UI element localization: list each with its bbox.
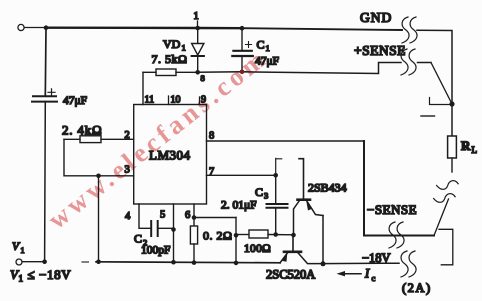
node VD1 bottom <box>195 70 200 75</box>
node emitter junction <box>321 261 326 266</box>
break symbol -SENSE <box>389 222 396 248</box>
wire pin2 loop to pin3 <box>64 139 134 176</box>
transistor Q2 2SC520A <box>280 235 323 264</box>
wire rail faint dash <box>82 261 89 263</box>
svg-text:2SC520A: 2SC520A <box>266 268 315 282</box>
svg-text:100Ω: 100Ω <box>244 243 271 255</box>
47uF plus mark <box>48 89 55 96</box>
wire pin 6 <box>193 204 195 226</box>
wire left rail lower <box>44 102 47 262</box>
transistor Q1 2SB434 <box>294 159 324 235</box>
wire +sense diagonal <box>431 63 452 105</box>
node rail left <box>42 259 47 264</box>
wire junction to RL <box>451 104 453 136</box>
pin 1 stub <box>197 21 199 28</box>
node x236 rail <box>234 261 239 266</box>
Q2 collector lead <box>298 253 323 264</box>
svg-text:L: L <box>472 145 478 155</box>
svg-text:C: C <box>255 185 263 199</box>
wire V1 to rail <box>22 261 44 263</box>
svg-text:1: 1 <box>194 11 199 22</box>
svg-text:(2A): (2A) <box>402 281 432 295</box>
svg-text:6: 6 <box>185 210 190 221</box>
resistor 0.2Ohm <box>190 226 197 244</box>
svg-text:1: 1 <box>182 43 186 53</box>
node GND-rail left junction <box>44 25 49 30</box>
svg-text:100pF: 100pF <box>141 245 170 257</box>
node Q1-Q2 base <box>291 233 296 238</box>
resistor 2.4kOhm <box>64 136 134 143</box>
svg-text:1: 1 <box>21 246 25 255</box>
sense tap symbol <box>430 98 452 105</box>
Q1 base stub <box>299 159 304 200</box>
wire C2 right <box>158 227 174 229</box>
op-amp regulator U1 LM304 body <box>134 105 207 205</box>
wire pin 4 <box>139 204 151 228</box>
capacitor C2 <box>151 221 158 236</box>
svg-text:0. 2Ω: 0. 2Ω <box>203 229 232 243</box>
wire pin3 node down <box>98 176 100 262</box>
resistor 100Ohm <box>249 230 268 238</box>
wire 0.2 bottom <box>193 244 195 263</box>
svg-text:GND: GND <box>360 10 392 25</box>
wire x236 vertical <box>235 218 237 263</box>
terminal V1 <box>16 259 22 265</box>
wire Q1 emitter drop <box>322 216 324 265</box>
wire -SENSE row <box>364 141 434 236</box>
wire 100ohm right lead <box>268 234 294 236</box>
svg-text:VD: VD <box>163 37 181 51</box>
svg-text:2SB434: 2SB434 <box>308 181 347 195</box>
svg-text:4: 4 <box>125 211 131 222</box>
node main output junction <box>449 101 454 106</box>
node pin5 rail <box>171 260 176 265</box>
Q2 base bar <box>284 251 301 254</box>
stub above pin7 node <box>276 158 282 175</box>
wire RL bottom <box>451 158 453 172</box>
Q1 emitter arrow <box>306 201 312 211</box>
load bracket <box>439 229 453 264</box>
svg-text:C: C <box>257 38 265 52</box>
wire bottom rail <box>96 262 280 263</box>
break symbol -18V <box>401 251 408 277</box>
resistor RL <box>448 136 457 158</box>
node pin6 <box>192 215 197 220</box>
wire pin8 <box>207 140 365 142</box>
node rail x98 <box>96 260 101 265</box>
svg-text:5: 5 <box>160 210 165 221</box>
svg-text:7. 5kΩ: 7. 5kΩ <box>152 52 188 66</box>
break symbol RL lead <box>437 179 459 191</box>
svg-text:47μF: 47μF <box>63 95 87 107</box>
svg-text:8: 8 <box>201 73 205 83</box>
node pin3 drop <box>96 174 101 179</box>
resistor 7.5kOhm <box>143 69 198 76</box>
wire pin6 to x236 <box>194 217 236 219</box>
Ic arrow <box>340 273 361 275</box>
wire left rail upper <box>44 28 47 96</box>
svg-text:10: 10 <box>171 95 181 106</box>
svg-text:I: I <box>364 267 370 281</box>
svg-text:9: 9 <box>201 95 206 106</box>
capacitor C3 <box>267 175 288 234</box>
C1 plus mark <box>246 42 252 48</box>
wire pin 5 <box>173 204 175 262</box>
wire 100ohm left lead <box>236 234 249 236</box>
capacitor 47uF left <box>32 96 57 101</box>
node C1 bottom <box>240 70 245 75</box>
Q1 base bar <box>298 198 311 201</box>
svg-text:47μF: 47μF <box>255 56 279 68</box>
node C1 top <box>240 26 245 31</box>
Q2 base lead <box>292 235 294 251</box>
svg-text:c: c <box>372 273 376 283</box>
break symbol GND rail <box>402 17 409 43</box>
wire RL diagonal to -SENSE <box>434 199 449 236</box>
svg-text:R: R <box>461 138 471 153</box>
Q1 collector lead <box>294 201 300 236</box>
node 100ohm left <box>234 233 239 238</box>
wire pin 7 <box>207 174 276 176</box>
wire pin 11 drop <box>142 72 144 104</box>
wire -18V out <box>323 262 399 264</box>
node pin7 C3 <box>273 173 278 178</box>
svg-text:V1 ≤ −18V: V1 ≤ −18V <box>10 267 71 284</box>
node VD1 top <box>195 26 200 31</box>
pin 11 stub <box>139 104 143 106</box>
svg-text:−18V: −18V <box>362 251 391 265</box>
svg-text:−SENSE: −SENSE <box>367 202 417 217</box>
svg-text:LM304: LM304 <box>149 148 191 163</box>
svg-text:+SENSE: +SENSE <box>354 43 406 58</box>
Q2 emitter lead <box>280 253 288 263</box>
svg-text:2. 01μF: 2. 01μF <box>221 200 257 212</box>
pin 10 stub <box>168 96 170 105</box>
diode VD1 <box>192 28 204 72</box>
node C2-pin5 <box>171 227 176 232</box>
svg-text:C: C <box>134 232 142 246</box>
node C3 bottom <box>273 232 278 237</box>
Q1 emitter lead <box>307 201 324 216</box>
Q2 emitter arrow <box>282 253 288 262</box>
wire +sense row <box>198 63 401 74</box>
svg-text:3: 3 <box>264 191 268 201</box>
capacitor C1 <box>232 28 253 72</box>
wire GND rail <box>46 27 242 30</box>
terminal input top-left <box>18 24 24 30</box>
break symbol +SENSE <box>401 49 408 75</box>
node 0.2 rail <box>192 260 197 265</box>
watermark www.elecfans.com <box>42 42 273 235</box>
pin 9 stub <box>199 97 201 105</box>
svg-text:1: 1 <box>266 43 270 53</box>
svg-text:11: 11 <box>145 95 155 106</box>
svg-text:3: 3 <box>125 165 130 176</box>
sense tap dash <box>421 115 435 117</box>
svg-text:8: 8 <box>209 131 214 142</box>
wire terminal to node <box>24 27 46 29</box>
